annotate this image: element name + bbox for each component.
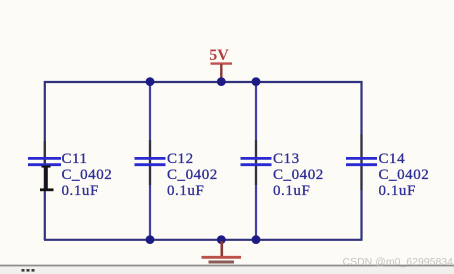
svg-text:C_0402: C_0402 xyxy=(379,167,430,183)
svg-text:0.1uF: 0.1uF xyxy=(379,183,416,199)
wire top rail xyxy=(44,81,363,83)
junction dot top C12 xyxy=(146,77,155,86)
capacitor C13 xyxy=(241,151,324,199)
capacitor C14 xyxy=(346,151,429,199)
ground xyxy=(202,241,242,262)
capacitor C12 xyxy=(135,151,218,199)
svg-text:C_0402: C_0402 xyxy=(167,167,218,183)
separator line xyxy=(0,265,454,267)
text I-beam cursor xyxy=(40,166,54,191)
svg-text:0.1uF: 0.1uF xyxy=(273,183,310,199)
junction dot top 5V xyxy=(217,77,226,86)
svg-text:C13: C13 xyxy=(273,151,300,167)
junction dot top C13 xyxy=(252,77,261,86)
wire C12 branch xyxy=(149,82,151,240)
svg-text:0.1uF: 0.1uF xyxy=(62,183,99,199)
svg-text:C_0402: C_0402 xyxy=(273,167,324,183)
svg-text:C12: C12 xyxy=(167,151,194,167)
svg-text:5V: 5V xyxy=(209,47,229,64)
ellipsis bottom-left xyxy=(22,269,35,272)
svg-text:0.1uF: 0.1uF xyxy=(167,183,204,199)
bottom gray strip xyxy=(0,266,454,274)
junction dot bottom GND xyxy=(217,235,226,244)
wire right edge (C14 branch) xyxy=(360,81,362,240)
junction dot bottom C12 xyxy=(146,235,155,244)
power port 5V xyxy=(209,47,232,81)
svg-text:C_0402: C_0402 xyxy=(62,167,113,183)
capacitor C11 xyxy=(28,151,112,199)
dark pin segments near capacitor plates xyxy=(45,134,362,190)
wire left edge (C11 branch) xyxy=(44,81,46,240)
wire bottom rail xyxy=(44,239,363,241)
watermark xyxy=(343,256,453,268)
svg-text:C11: C11 xyxy=(62,151,88,167)
junction dot bottom C13 xyxy=(252,235,261,244)
wire C13 branch xyxy=(255,82,257,240)
svg-text:C14: C14 xyxy=(379,151,406,167)
